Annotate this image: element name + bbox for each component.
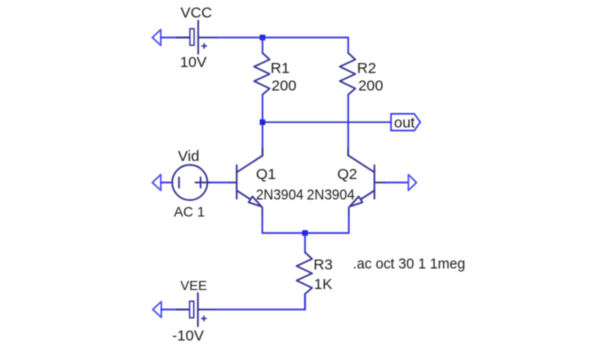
resistor R3 xyxy=(297,252,313,294)
svg-text:200: 200 xyxy=(358,78,383,95)
wire: Q2 base to port arrow xyxy=(384,182,408,184)
wire: R3 top lead xyxy=(304,233,306,252)
svg-text:1K: 1K xyxy=(314,276,332,293)
svg-text:AC 1: AC 1 xyxy=(174,204,205,220)
junction: emitters / R3 node xyxy=(302,230,308,236)
voltage source VCC (battery symbol) xyxy=(177,21,217,54)
wire: R2 bottom lead to Q2 collector xyxy=(347,95,349,156)
svg-text:Q2: Q2 xyxy=(337,166,357,183)
wire: VEE rail to R3 xyxy=(215,294,305,310)
svg-text:2N3904: 2N3904 xyxy=(256,186,304,203)
svg-text:-10V: -10V xyxy=(172,327,204,344)
junction: VCC / R1 node xyxy=(260,35,266,41)
port arrow (Vid left end) xyxy=(152,175,161,191)
port arrow (VEE rail left end) xyxy=(153,302,162,318)
resistor R2 xyxy=(340,53,356,95)
svg-text:R1: R1 xyxy=(271,60,290,77)
voltage source VEE (battery symbol) xyxy=(177,293,217,326)
node out (net flag) xyxy=(391,114,420,131)
resistor R1 xyxy=(254,53,270,95)
wire: Vid arrow to source xyxy=(161,182,172,184)
svg-text:VCC: VCC xyxy=(180,5,212,22)
wire: R2 top lead xyxy=(347,38,349,54)
wire: Q2 emitter down xyxy=(305,215,349,233)
svg-text:Q1: Q1 xyxy=(256,166,276,183)
svg-text:200: 200 xyxy=(272,78,297,95)
port arrow (VCC rail left end) xyxy=(152,30,161,46)
wire: R1 bottom lead to Q1 collector xyxy=(262,95,264,156)
svg-text:10V: 10V xyxy=(180,54,207,71)
transistor Q2 (npn 2N3904, mirrored) xyxy=(348,148,385,216)
svg-text:R2: R2 xyxy=(357,60,376,77)
wire: R1 top lead xyxy=(262,38,264,54)
svg-text:out: out xyxy=(394,115,416,132)
junction: R1 / Q1 collector / out xyxy=(260,119,266,125)
svg-text:R3: R3 xyxy=(314,256,333,273)
wire: Vid to Q1 base xyxy=(211,182,230,184)
wire: R3 bottom lead xyxy=(304,294,306,310)
voltage source Vid (AC source) xyxy=(172,165,211,200)
svg-text:Vid: Vid xyxy=(178,148,199,165)
wire: VEE arrow to battery xyxy=(161,309,189,311)
transistor Q1 (npn 2N3904) xyxy=(229,148,263,216)
wire: VCC arrow to battery xyxy=(161,37,189,39)
port arrow (Q2 base, right end) xyxy=(408,175,416,191)
wire: Q1 emitter down xyxy=(262,215,305,233)
wire: VCC top rail xyxy=(216,37,349,39)
wire: out net (from R1/Q1 node) xyxy=(263,121,392,123)
svg-text:.ac oct 30 1 1meg: .ac oct 30 1 1meg xyxy=(353,256,466,273)
svg-text:VEE: VEE xyxy=(180,278,207,293)
svg-text:2N3904: 2N3904 xyxy=(307,186,355,203)
